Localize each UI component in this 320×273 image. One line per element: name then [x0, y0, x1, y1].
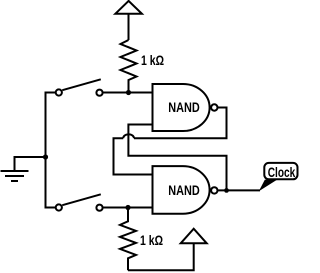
wire bottom return [128, 243, 194, 270]
svg-text:1 kΩ: 1 kΩ [140, 233, 163, 248]
switch SW2 [56, 194, 103, 210]
label Clock callout [259, 163, 298, 191]
NAND gate U2 [153, 166, 218, 214]
wire U2 output to U1 input B [128, 125, 226, 191]
wire SW1 stub [46, 92, 56, 94]
wire top rail [103, 92, 153, 94]
node output junction [224, 188, 229, 193]
svg-text:NAND: NAND [168, 100, 200, 115]
wire ground tap [15, 157, 46, 171]
wire left rail [45, 92, 47, 209]
NAND gate U1 [153, 84, 218, 131]
node ground tap junction [43, 154, 48, 159]
switch SW1 [56, 79, 103, 95]
svg-text:NAND: NAND [168, 183, 200, 198]
svg-text:Clock: Clock [268, 165, 296, 180]
resistor R1 [121, 40, 137, 93]
wire U2 output [218, 189, 260, 191]
node R1-SW1 junction [126, 90, 131, 95]
node R2-SW2 junction [125, 205, 130, 210]
wire SW2 stub [46, 207, 56, 209]
ground [1, 171, 29, 181]
wire U1 output to U2 input A (with hop) [114, 108, 227, 175]
power supply V+ top [115, 1, 142, 40]
resistor R2 [120, 208, 136, 271]
svg-text:1 kΩ: 1 kΩ [141, 53, 164, 68]
wire bottom rail [103, 207, 153, 209]
power supply V+ bottom [181, 229, 207, 244]
